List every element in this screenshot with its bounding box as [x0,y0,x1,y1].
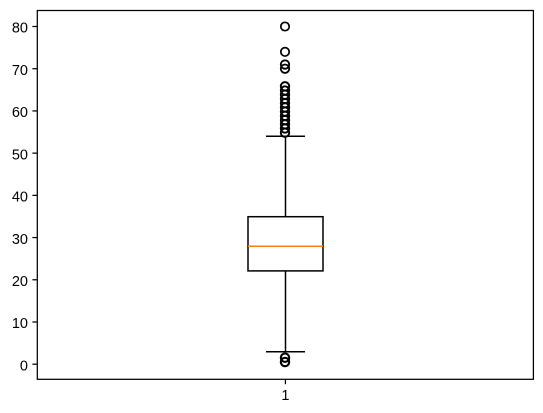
svg-text:80: 80 [12,21,28,37]
svg-text:30: 30 [12,232,28,248]
svg-text:10: 10 [12,316,28,332]
svg-text:0: 0 [20,358,28,374]
svg-text:40: 40 [12,190,28,206]
svg-text:20: 20 [12,274,28,290]
svg-text:50: 50 [12,147,28,163]
svg-text:70: 70 [12,63,28,79]
svg-text:1: 1 [281,388,289,404]
svg-text:60: 60 [12,105,28,121]
